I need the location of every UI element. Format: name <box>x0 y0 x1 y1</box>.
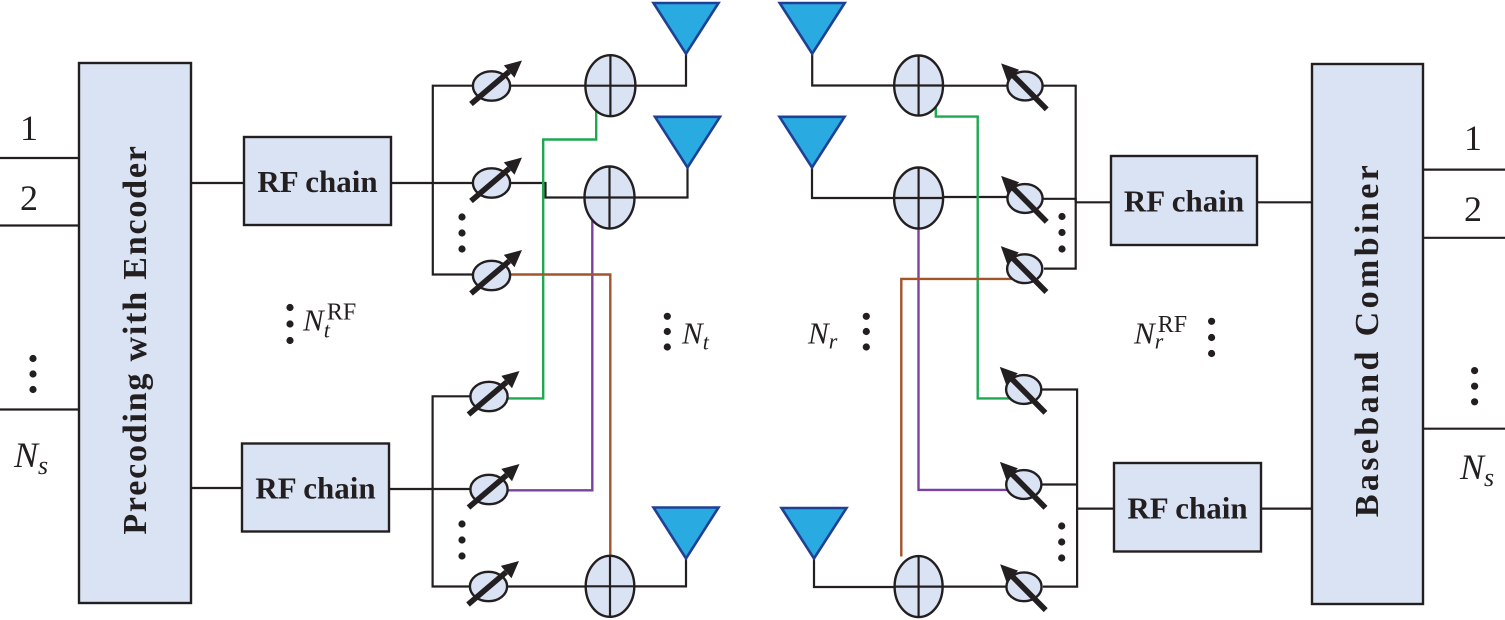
wire D3 to phase shifter PR6 <box>943 585 1008 587</box>
antenna A3 <box>654 508 719 559</box>
wire RF chain 3 to baseband combiner <box>1257 201 1313 203</box>
wire RF chain 2 to phase shifter PS5 <box>389 488 471 490</box>
wire receive bus 1 to RF chain 3 <box>1076 201 1112 203</box>
bus 2 vertical (transmit RF2) <box>433 396 471 586</box>
antenna A2 <box>655 117 720 168</box>
svg-text:NtRF: NtRF <box>302 300 356 343</box>
svg-text:Ns: Ns <box>13 435 48 480</box>
output ellipsis dots <box>1471 367 1478 405</box>
svg-text:2: 2 <box>1464 189 1482 229</box>
phase shifter PR2 <box>1001 176 1047 222</box>
antenna B1 <box>780 3 845 54</box>
svg-text:1: 1 <box>1464 118 1482 158</box>
svg-text:RF chain: RF chain <box>257 164 377 199</box>
precoder box "Precoding with Encoder" <box>79 63 191 603</box>
input ellipsis dots <box>29 355 36 393</box>
combiner node S1 <box>585 55 635 116</box>
wire D1 to phase shifter PR1 <box>943 85 1008 87</box>
wire PS1 to combiner node S1 <box>509 85 586 87</box>
label N_t^RF dots <box>286 304 293 344</box>
wire S2 to antenna A2 <box>635 167 688 198</box>
antenna A1 <box>654 3 719 54</box>
splitter node D1 <box>894 56 943 116</box>
wire PS6 to combiner node S3 <box>506 585 587 587</box>
phase shifter PR5 <box>1000 462 1046 508</box>
output line Ns <box>1423 428 1505 430</box>
receive ellipsis dots between PR5 and PR6 <box>1058 522 1065 561</box>
antenna B2 <box>780 117 845 168</box>
svg-text:RF chain: RF chain <box>1127 491 1247 526</box>
svg-text:Nt: Nt <box>681 316 710 355</box>
combiner node S3 <box>586 556 635 617</box>
phase shifter PS3 <box>471 250 522 294</box>
RF chain box 2 <box>242 444 389 532</box>
svg-text:Precoding with Encoder: Precoding with Encoder <box>117 144 154 534</box>
splitter node D3 <box>895 556 943 617</box>
antenna B3 <box>782 508 847 559</box>
bus 1 vertical (transmit RF1) <box>433 86 474 275</box>
phase shifter PS6 <box>468 561 519 605</box>
svg-text:Nr: Nr <box>807 316 838 354</box>
svg-text:Ns: Ns <box>1459 447 1494 492</box>
purple wire D2 to PR5 <box>919 228 1014 490</box>
wire PR4 to receive bus 2 <box>1041 390 1077 587</box>
RF chain box 4 <box>1114 463 1261 552</box>
label N_r dots <box>863 313 870 351</box>
phase shifter PR4 <box>1000 367 1046 413</box>
wire PR1 to receive bus 1 <box>1042 86 1076 269</box>
wire S1 to antenna A1 <box>635 53 686 86</box>
green wire PS4 to S1 <box>507 107 597 398</box>
RF chain box 3 <box>1111 156 1257 245</box>
wire RF chain 1 to phase shifter PS2 <box>391 182 474 184</box>
transmit ellipsis dots between PS5 and PS6 <box>458 520 465 559</box>
brown wire PS3 to S3 <box>510 275 611 557</box>
wire antenna B3 to splitter D3 <box>814 559 895 588</box>
wire antenna B2 to splitter D2 <box>812 167 894 198</box>
phase shifter PS5 <box>469 464 520 508</box>
transmit ellipsis dots between PS2 and PS3 <box>458 213 465 252</box>
wire PR5 to receive bus 2 <box>1041 483 1077 485</box>
wire PR2 to receive bus 1 junction <box>1042 199 1076 203</box>
svg-text:2: 2 <box>20 178 38 218</box>
svg-text:NrRF: NrRF <box>1133 312 1187 354</box>
phase shifter PR3 <box>1001 246 1047 292</box>
purple wire PS5 to S2 <box>507 220 592 491</box>
label N_r^RF dots <box>1208 318 1215 357</box>
svg-text:1: 1 <box>20 108 38 148</box>
splitter node D2 <box>894 168 943 229</box>
combiner node S2 <box>585 167 635 229</box>
wire PS2 to combiner node S2 (step) <box>509 183 585 198</box>
brown wire D3 to PR3 <box>901 279 1012 557</box>
receive ellipsis dots between PR2 and PR3 <box>1058 213 1065 253</box>
output line 2 <box>1423 237 1505 239</box>
baseband combiner box <box>1312 64 1423 604</box>
wire receive bus 2 to RF chain 4 <box>1077 508 1115 510</box>
phase shifter PR6 <box>1000 564 1046 610</box>
svg-text:Baseband Combiner: Baseband Combiner <box>1349 162 1386 517</box>
label N_t dots <box>664 313 671 351</box>
RF chain box 1 <box>244 137 391 225</box>
input line 2 <box>0 224 79 226</box>
phase shifter PS2 <box>471 158 522 202</box>
wire precoder to RF chain 2 <box>191 487 242 489</box>
input line Ns <box>0 408 79 410</box>
svg-text:RF chain: RF chain <box>1124 184 1244 219</box>
green wire D1 to PR4 <box>936 100 1016 399</box>
wire S3 to antenna A3 <box>634 558 686 586</box>
svg-text:RF chain: RF chain <box>255 471 375 506</box>
wire precoder to RF chain 1 <box>191 182 244 184</box>
input line 1 <box>0 157 79 159</box>
phase shifter PR1 <box>1001 63 1047 109</box>
phase shifter PS1 <box>471 61 522 105</box>
phase shifter PS4 <box>469 371 520 415</box>
wire antenna B1 to splitter D1 <box>812 53 894 86</box>
wire D2 to phase shifter PR2 <box>943 196 1008 198</box>
output line 1 <box>1423 169 1505 171</box>
wire RF chain 4 to baseband combiner <box>1261 508 1313 510</box>
